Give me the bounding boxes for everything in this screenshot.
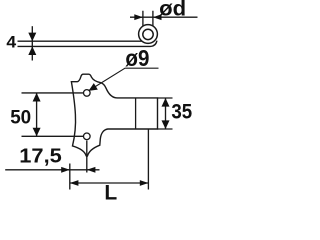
- svg-text:4: 4: [6, 34, 17, 52]
- svg-text:35: 35: [171, 101, 192, 124]
- leader line o9 with shelf: [89, 68, 158, 90]
- svg-text:ø9: ø9: [125, 45, 149, 71]
- arrow 35 bottom (down): [162, 120, 170, 129]
- bend line of eye: [135, 98, 137, 129]
- left edge extension line: [69, 164, 71, 190]
- top hole: [84, 90, 91, 97]
- svg-text:L: L: [104, 182, 117, 200]
- arrow 50 top (up): [33, 93, 41, 102]
- dimension 35 extension lines: [158, 98, 173, 129]
- arrow leader o9: [89, 83, 98, 91]
- plate outline (front view): [71, 74, 157, 156]
- bottom hole: [84, 133, 91, 140]
- arrow 35 top (up): [162, 98, 170, 107]
- dimension 17,5 line: [5, 169, 99, 171]
- arrow L right (right-pointing): [140, 180, 149, 186]
- svg-text:17,5: 17,5: [19, 146, 62, 168]
- svg-text:ød: ød: [159, 0, 186, 21]
- dimension 4 stem: [31, 26, 33, 60]
- arrow 4 top (down): [28, 33, 36, 42]
- eye inner circle (hole d): [143, 29, 153, 39]
- dimension 50 extension/center lines: [22, 93, 84, 136]
- arrow 50 bottom (down): [33, 128, 41, 137]
- dimension L line: [70, 182, 149, 184]
- arrow 17,5 left (right-pointing): [61, 167, 70, 173]
- svg-text:50: 50: [10, 106, 31, 128]
- wire bar top line (strap top surface, side view): [18, 40, 142, 42]
- eye outer circle: [139, 25, 158, 44]
- dimension d line: [130, 16, 198, 18]
- arrow L left (left-pointing): [70, 180, 79, 186]
- arrow d left (right-pointing): [134, 14, 143, 20]
- arrow d right (left-pointing): [153, 14, 162, 20]
- arrow 4 bottom (up): [28, 46, 36, 55]
- dimension 50 line: [36, 93, 38, 136]
- eye center extension line: [147, 130, 149, 190]
- dimension 35 line: [165, 98, 167, 129]
- centerline extension: [86, 141, 88, 173]
- dimension d extension lines: [143, 11, 153, 26]
- wire bar bottom line with curled end: [18, 41, 157, 47]
- arrow 17,5 right (left-pointing): [87, 167, 96, 173]
